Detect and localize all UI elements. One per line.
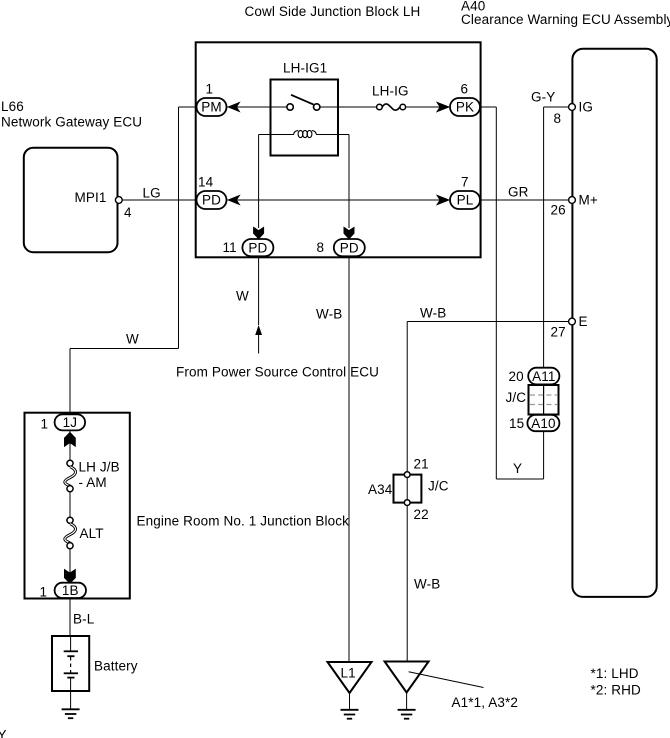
- twist symbol ALT squiggle: [65, 524, 76, 543]
- relay switch blade: [291, 95, 314, 105]
- wire GR from PL to M+: [480, 199, 569, 201]
- svg-text:E: E: [579, 314, 588, 329]
- arrowhead into PD 11: [254, 227, 264, 239]
- svg-text:15: 15: [509, 416, 524, 431]
- arrowhead into PD 14: [228, 196, 239, 205]
- ECU A40 box: [572, 49, 656, 597]
- terminal circle MPI1 pin 4: [115, 197, 122, 204]
- svg-text:1: 1: [41, 417, 49, 432]
- connector oval PM: [197, 98, 227, 116]
- svg-text:M+: M+: [579, 193, 598, 208]
- terminal circle 22: [404, 500, 410, 506]
- wire down to A34: [406, 322, 408, 472]
- battery dashed middle: [70, 657, 72, 673]
- twist symbol LH J/B - AM bottom circle: [67, 486, 73, 492]
- battery plate long 2: [64, 672, 78, 674]
- svg-text:W-B: W-B: [316, 307, 342, 322]
- svg-text:MPI1: MPI1: [75, 190, 107, 205]
- svg-text:W-B: W-B: [414, 577, 440, 592]
- arrowhead into 1J: [64, 432, 75, 446]
- svg-text:Y: Y: [0, 728, 7, 738]
- wire W vertical from PM: [178, 107, 180, 349]
- ground triangle A1/A3: [385, 662, 429, 693]
- battery plate long 1: [64, 650, 78, 652]
- svg-text:- AM: - AM: [79, 475, 107, 490]
- svg-text:7: 7: [461, 175, 469, 190]
- wire B-L to battery: [69, 598, 71, 635]
- svg-text:Network Gateway ECU: Network Gateway ECU: [1, 115, 142, 130]
- twist symbol ALT top circle: [67, 517, 73, 523]
- connector oval PD 11: [242, 239, 273, 256]
- svg-text:L1: L1: [341, 666, 356, 681]
- svg-text:Engine Room No. 1 Junction Blo: Engine Room No. 1 Junction Block: [137, 514, 350, 529]
- connector oval 1J: [55, 414, 86, 430]
- svg-text:J/C: J/C: [428, 479, 449, 494]
- svg-text:14: 14: [198, 175, 214, 190]
- svg-text:GR: GR: [508, 185, 529, 200]
- ground below L1: [341, 710, 359, 719]
- wire to 1B: [69, 549, 71, 583]
- relay coil loops: [294, 130, 317, 137]
- svg-text:G-Y: G-Y: [531, 90, 555, 105]
- wire A10 to Y: [543, 431, 545, 479]
- arrow shaft: [258, 335, 260, 354]
- svg-text:PM: PM: [201, 100, 222, 115]
- arrow from power source control ECU: [255, 325, 262, 335]
- svg-text:ALT: ALT: [80, 526, 104, 541]
- svg-text:*2: RHD: *2: RHD: [591, 683, 641, 698]
- svg-text:11: 11: [223, 240, 237, 255]
- wire PM stub left: [179, 106, 197, 108]
- wire inside block to twist 1: [69, 431, 71, 461]
- svg-text:PD: PD: [202, 193, 221, 208]
- wire W horizontal to 1J: [70, 348, 179, 350]
- wire W down to 1J: [69, 349, 71, 415]
- ground stem A1/A3: [406, 693, 408, 710]
- svg-text:A10: A10: [531, 416, 555, 431]
- arrowhead into PL: [437, 195, 449, 204]
- svg-text:26: 26: [551, 203, 566, 218]
- relay coil line left: [259, 134, 294, 136]
- svg-text:W-B: W-B: [420, 306, 446, 321]
- connector oval PD 14: [197, 191, 227, 209]
- svg-text:1B: 1B: [62, 583, 79, 598]
- svg-text:1: 1: [40, 585, 48, 600]
- fuse LH-IG left circle: [377, 104, 383, 110]
- junction connector J/C block: [529, 385, 559, 415]
- wire fuse to PK: [406, 106, 450, 108]
- wire G-Y vertical to A11: [543, 107, 545, 368]
- wire from PK right: [480, 106, 496, 108]
- battery box: [52, 636, 89, 691]
- terminal circle M+: [569, 197, 576, 204]
- ground triangle L1: [328, 662, 372, 693]
- svg-text:22: 22: [414, 507, 429, 522]
- svg-text:27: 27: [551, 325, 566, 340]
- arrowhead into PK: [437, 102, 449, 111]
- junction connector A34 box: [394, 475, 422, 503]
- ground below battery: [62, 709, 80, 718]
- svg-text:J/C: J/C: [506, 390, 527, 405]
- svg-text:B-L: B-L: [73, 612, 95, 627]
- terminal circle 21: [404, 472, 410, 478]
- battery wire to ground: [70, 678, 72, 710]
- wire between twists: [69, 492, 71, 517]
- connector oval PD 8: [334, 239, 365, 256]
- svg-text:L66: L66: [1, 99, 24, 114]
- relay switch contact right: [314, 104, 320, 110]
- wire G-Y horizontal to IG: [544, 106, 568, 108]
- callout line to A1*1, A3*2: [409, 672, 484, 688]
- wire W-B from A34 down: [406, 506, 408, 662]
- svg-text:LG: LG: [143, 186, 161, 201]
- svg-text:20: 20: [509, 369, 524, 384]
- svg-text:LH-IG: LH-IG: [372, 84, 409, 99]
- connector oval PL: [450, 191, 480, 209]
- connector oval A10: [527, 415, 559, 431]
- wire LG from MPI1 to PD: [122, 199, 196, 201]
- svg-text:4: 4: [124, 205, 132, 220]
- svg-text:LH-IG1: LH-IG1: [283, 61, 327, 76]
- svg-text:Battery: Battery: [94, 659, 138, 674]
- twist symbol ALT bottom circle: [67, 543, 73, 549]
- wire W below PD 11: [258, 257, 260, 326]
- twist symbol LH J/B - AM squiggle: [65, 467, 76, 486]
- svg-text:W: W: [236, 289, 249, 304]
- relay switch contact left: [287, 104, 293, 110]
- battery internal wire top: [70, 635, 72, 651]
- svg-text:Y: Y: [513, 461, 522, 476]
- svg-text:PD: PD: [340, 241, 359, 256]
- svg-text:PD: PD: [248, 241, 267, 256]
- battery plate short 1: [67, 655, 74, 657]
- svg-text:W: W: [126, 332, 139, 347]
- svg-text:8: 8: [554, 111, 562, 126]
- wire coil right vertical to PD 8: [348, 135, 350, 229]
- terminal circle E: [569, 318, 576, 325]
- svg-text:PL: PL: [457, 193, 474, 208]
- relay box LH-IG1: [271, 80, 339, 156]
- arrowhead into 1B: [64, 569, 75, 583]
- svg-text:LH J/B: LH J/B: [79, 460, 120, 475]
- svg-text:Cowl Side Junction Block LH: Cowl Side Junction Block LH: [245, 4, 421, 19]
- wire coil left vertical to PD 11: [258, 135, 260, 229]
- relay coil line right: [316, 134, 349, 136]
- arrowhead into PM: [228, 103, 239, 112]
- wire PD14 to PL: [227, 199, 451, 201]
- junction block Cowl Side J/B outline: [196, 42, 481, 257]
- wire W-B below PD 8: [348, 257, 350, 663]
- connector oval A11: [528, 368, 559, 385]
- twist symbol LH J/B - AM top circle: [67, 460, 73, 466]
- relay switch wire to right: [320, 106, 377, 108]
- arrowhead into PD 8: [344, 227, 354, 239]
- svg-text:Clearance Warning ECU Assembly: Clearance Warning ECU Assembly: [461, 12, 670, 27]
- svg-text:A1*1, A3*2: A1*1, A3*2: [452, 695, 519, 710]
- wire Y horizontal: [496, 478, 543, 480]
- wire PK vertical down: [495, 107, 497, 479]
- svg-text:A34: A34: [368, 482, 393, 497]
- svg-text:6: 6: [461, 82, 469, 97]
- connector oval 1B: [55, 583, 86, 598]
- svg-text:*1: LHD: *1: LHD: [591, 666, 639, 681]
- ground below A1/A3: [398, 710, 416, 719]
- terminal circle IG: [569, 104, 576, 111]
- svg-text:1J: 1J: [63, 415, 78, 430]
- svg-text:IG: IG: [579, 100, 594, 115]
- svg-text:21: 21: [414, 457, 429, 472]
- ECU L66 box: [24, 148, 118, 253]
- wire inside A34 between pins: [406, 478, 408, 500]
- battery plate short 2: [67, 677, 74, 679]
- wire W-B from E to A34: [407, 321, 568, 323]
- svg-text:8: 8: [317, 240, 325, 255]
- svg-text:A11: A11: [532, 369, 555, 384]
- engine room junction block box: [25, 413, 130, 599]
- svg-text:1: 1: [206, 82, 214, 97]
- fuse LH-IG right circle: [400, 104, 406, 110]
- wire IG row: PM arrow to switch: [227, 106, 288, 108]
- ground stem L1: [349, 693, 351, 710]
- svg-text:PK: PK: [456, 100, 474, 115]
- fuse LH-IG wave: [382, 104, 400, 110]
- connector oval PK: [450, 98, 480, 116]
